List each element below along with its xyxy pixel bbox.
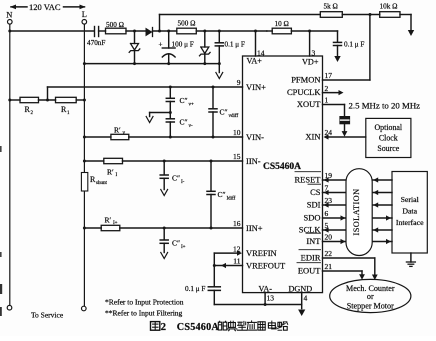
- svg-text:VA+: VA+: [247, 57, 263, 66]
- svg-text:XOUT: XOUT: [297, 99, 321, 109]
- svg-text:Stepper Motor: Stepper Motor: [347, 302, 394, 311]
- svg-text:2.5 MHz to 20 MHz: 2.5 MHz to 20 MHz: [349, 101, 421, 111]
- svg-text:0.1 μ F: 0.1 μ F: [185, 285, 205, 293]
- svg-text:1: 1: [325, 96, 329, 105]
- svg-text:10: 10: [233, 128, 241, 137]
- svg-text:Optional: Optional: [374, 123, 402, 132]
- svg-text:Serial: Serial: [401, 195, 420, 204]
- svg-text:or: or: [367, 292, 374, 301]
- svg-text:9: 9: [237, 78, 241, 87]
- svg-text:120 VAC: 120 VAC: [29, 2, 61, 12]
- svg-text:I: I: [116, 173, 118, 178]
- svg-text:C″: C″: [220, 108, 228, 117]
- svg-text:Data: Data: [402, 207, 417, 216]
- svg-text:IIN-: IIN-: [246, 156, 261, 166]
- svg-text:VREFIN: VREFIN: [246, 248, 277, 258]
- svg-text:500 Ω: 500 Ω: [106, 21, 124, 29]
- svg-text:15: 15: [233, 152, 241, 161]
- svg-text:2: 2: [161, 321, 166, 333]
- svg-text:I+: I+: [181, 245, 186, 250]
- svg-text:EOUT: EOUT: [298, 266, 321, 276]
- svg-text:3: 3: [312, 49, 316, 58]
- svg-text:5k Ω: 5k Ω: [324, 3, 338, 11]
- svg-text:6: 6: [325, 209, 329, 218]
- svg-text:PFMON: PFMON: [291, 75, 320, 85]
- svg-text:1: 1: [67, 111, 70, 116]
- svg-text:Source: Source: [377, 144, 399, 153]
- svg-text:CS5460A: CS5460A: [177, 322, 220, 333]
- svg-text:VA-: VA-: [259, 285, 273, 294]
- svg-text:4: 4: [304, 294, 308, 303]
- svg-text:CPUCLK: CPUCLK: [287, 87, 321, 97]
- svg-text:2: 2: [325, 84, 329, 93]
- svg-text:11: 11: [233, 257, 240, 266]
- svg-text:INT: INT: [306, 236, 321, 246]
- svg-text:ISOLATION: ISOLATION: [352, 189, 361, 236]
- svg-text:IIN+: IIN+: [246, 223, 263, 233]
- svg-text:CS5460A: CS5460A: [263, 162, 301, 172]
- svg-text:0.1 μ F: 0.1 μ F: [344, 41, 364, 49]
- svg-text:R′: R′: [105, 216, 112, 225]
- svg-text:CS: CS: [310, 187, 321, 197]
- svg-text:14: 14: [257, 49, 265, 58]
- svg-text:22: 22: [325, 249, 333, 258]
- svg-text:470nF: 470nF: [87, 39, 105, 47]
- svg-text:XIN: XIN: [305, 132, 320, 142]
- svg-text:24: 24: [325, 128, 333, 137]
- svg-text:0.1 μ F: 0.1 μ F: [225, 41, 245, 49]
- svg-text:Clock: Clock: [379, 134, 398, 143]
- svg-text:v+: v+: [189, 103, 195, 108]
- svg-text:I+: I+: [113, 221, 118, 226]
- svg-text:I-: I-: [181, 180, 185, 185]
- svg-text:10 Ω: 10 Ω: [275, 20, 289, 28]
- svg-text:12: 12: [233, 244, 241, 253]
- svg-text:20: 20: [325, 233, 333, 242]
- svg-text:N: N: [6, 10, 12, 20]
- svg-text:shunt: shunt: [96, 181, 107, 186]
- svg-text:21: 21: [325, 262, 333, 271]
- svg-text:2: 2: [31, 111, 34, 116]
- svg-text:*Refer to Input Protection: *Refer to Input Protection: [105, 298, 184, 307]
- svg-text:C″: C″: [218, 190, 226, 199]
- svg-text:100 μ F: 100 μ F: [172, 41, 194, 49]
- svg-text:VD+: VD+: [302, 58, 319, 67]
- svg-text:C″: C″: [180, 96, 188, 105]
- svg-text:VREFOUT: VREFOUT: [246, 260, 286, 270]
- svg-text:vdiff: vdiff: [229, 114, 239, 119]
- svg-text:v: v: [123, 131, 126, 136]
- svg-text:C″: C″: [172, 239, 180, 248]
- svg-text:EDIR: EDIR: [301, 253, 321, 263]
- svg-text:R′: R′: [114, 125, 121, 134]
- svg-text:L: L: [82, 9, 87, 19]
- svg-text:VIN+: VIN+: [246, 82, 266, 92]
- svg-text:Idiff: Idiff: [227, 197, 236, 202]
- svg-text:10k Ω: 10k Ω: [380, 3, 398, 11]
- svg-text:DGND: DGND: [289, 285, 313, 294]
- svg-text:SDO: SDO: [303, 213, 320, 223]
- svg-text:**Refer to Input Filtering: **Refer to Input Filtering: [105, 309, 183, 318]
- svg-text:16: 16: [233, 219, 241, 228]
- svg-text:v-: v-: [189, 124, 194, 129]
- svg-text:500 Ω: 500 Ω: [178, 20, 196, 28]
- svg-text:To Service: To Service: [31, 311, 64, 320]
- svg-text:C″: C″: [172, 174, 180, 183]
- svg-text:VIN-: VIN-: [246, 132, 264, 142]
- svg-text:R′: R′: [107, 168, 114, 177]
- svg-text:Interface: Interface: [396, 218, 424, 227]
- svg-text:SDI: SDI: [307, 200, 321, 210]
- svg-text:17: 17: [325, 71, 333, 80]
- svg-text:13: 13: [267, 294, 275, 303]
- svg-text:C″: C″: [180, 118, 188, 127]
- svg-text:+: +: [159, 41, 163, 49]
- svg-text:RESET: RESET: [295, 175, 322, 185]
